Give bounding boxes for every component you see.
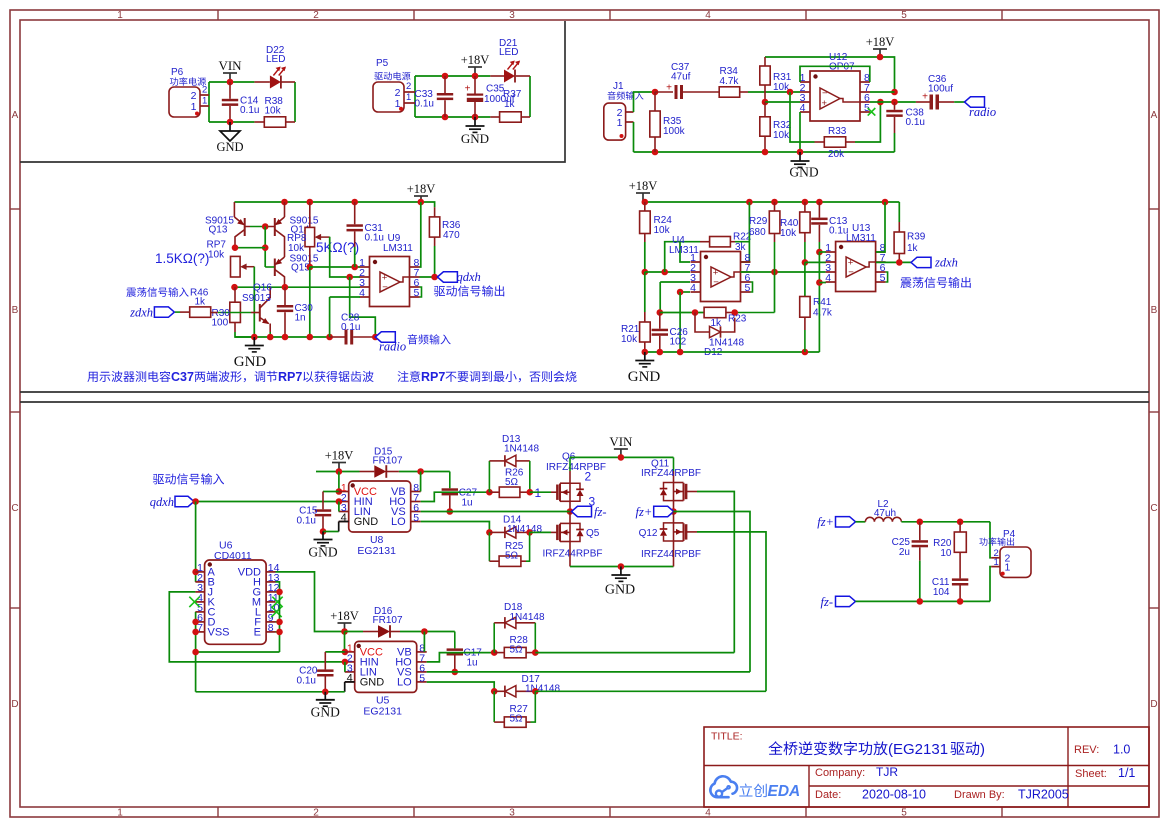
- diode D18 1N4148: [493, 623, 495, 653]
- svg-text:10: 10: [940, 548, 952, 559]
- svg-text:S9013: S9013: [242, 293, 271, 304]
- ground symbol (bridge): [620, 567, 622, 576]
- U5 HIN-LIN tie: [344, 662, 346, 672]
- U12 pin4 to ground: [799, 112, 801, 152]
- svg-text:2u: 2u: [899, 547, 910, 558]
- svg-text:LO: LO: [391, 516, 406, 528]
- ground symbol (B1): [253, 337, 255, 346]
- junction +18V to pin7: [891, 89, 898, 96]
- U4 pin7 output wire: [741, 271, 826, 273]
- svg-text:Company:: Company:: [815, 767, 865, 779]
- svg-text:0.1u: 0.1u: [297, 516, 316, 527]
- diode D13 1N4148: [488, 461, 490, 492]
- net flag radio (output): [965, 97, 985, 107]
- resistor R34: [719, 87, 740, 97]
- wire RP8 bottom to ground rail: [309, 267, 311, 337]
- wire VCC to C15: [323, 491, 339, 493]
- wire P5 top rail: [415, 75, 490, 77]
- U8 GND wire: [320, 528, 327, 535]
- svg-text:1: 1: [191, 101, 197, 113]
- trimmer RP8: [309, 202, 311, 227]
- net flag fz- (bridge): [572, 506, 592, 516]
- title block frame: [704, 727, 1149, 807]
- diode D12 1N4148: [695, 313, 709, 333]
- svg-text:IRFZ44RPBF: IRFZ44RPBF: [641, 468, 701, 479]
- U5 VB bootstrap wire: [421, 628, 428, 635]
- svg-text:B: B: [12, 305, 19, 316]
- svg-text:1n: 1n: [295, 313, 306, 324]
- node C26 / pin3: [657, 309, 664, 316]
- net flag qdxh (input): [153, 473, 224, 484]
- svg-text:C37: C37: [171, 370, 194, 384]
- svg-text:VIN: VIN: [218, 58, 242, 73]
- svg-text:3: 3: [509, 808, 515, 819]
- diode D16 FR107: [345, 631, 364, 633]
- svg-text:IRFZ44RPBF: IRFZ44RPBF: [543, 549, 603, 560]
- svg-text:fz+: fz+: [817, 515, 834, 529]
- net flag fz- (filter input): [836, 596, 856, 606]
- trimmer RP7: [231, 256, 241, 277]
- capacitor C25: [919, 522, 921, 540]
- connector J1: [604, 103, 626, 140]
- U9 pin4 wire to ground: [330, 296, 360, 298]
- svg-text:C: C: [1150, 503, 1157, 514]
- svg-text:EG2131: EG2131: [357, 545, 396, 557]
- transistor Q16 S9013: [251, 312, 259, 314]
- svg-text:4: 4: [825, 272, 831, 284]
- junction R32 bottom: [762, 149, 769, 156]
- ground symbol (U8/C15): [322, 532, 324, 540]
- svg-text:1.0: 1.0: [1113, 743, 1130, 757]
- svg-text:Q5: Q5: [586, 528, 600, 539]
- resistor R46: [175, 311, 180, 313]
- svg-text:20k: 20k: [828, 149, 845, 160]
- Q11 source to fz+ node: [673, 501, 675, 512]
- svg-text:1N4148: 1N4148: [525, 684, 560, 695]
- resistor R33: [815, 141, 825, 143]
- svg-text:D: D: [1150, 699, 1157, 710]
- svg-text:IRFZ44RPBF: IRFZ44RPBF: [641, 549, 701, 560]
- svg-text:VSS: VSS: [208, 627, 230, 639]
- resistor R39: [898, 202, 900, 222]
- Q6 source to fz- node: [569, 501, 571, 511]
- capacitor C30: [284, 287, 286, 305]
- U8 VB bootstrap wire: [417, 468, 424, 475]
- feedback wire R33 to pin6: [855, 102, 880, 142]
- inductor L2: [856, 521, 866, 523]
- MOSFET Q6 IRFZ44RPBF: [556, 485, 559, 500]
- svg-text:LM311: LM311: [669, 245, 699, 256]
- svg-text:GND: GND: [308, 545, 337, 560]
- svg-text:CD4011: CD4011: [214, 550, 252, 562]
- svg-text:radio: radio: [379, 340, 406, 354]
- transistor Q13 S9015: [233, 202, 235, 217]
- wire divider to pin3: [765, 101, 800, 103]
- capacitor C15: [322, 492, 324, 510]
- svg-text:1: 1: [1005, 562, 1011, 574]
- svg-text:GND: GND: [216, 140, 243, 154]
- junction divider mid / pin3: [762, 99, 769, 106]
- net flag zdxh (output): [911, 257, 931, 267]
- resistor R28: [494, 652, 504, 654]
- U6 pin4 no-connect X: [189, 597, 199, 607]
- svg-text:R41: R41: [813, 297, 832, 308]
- svg-text:5: 5: [419, 672, 425, 684]
- logic IC U6 CD4011: [205, 560, 267, 644]
- svg-text:3: 3: [589, 495, 596, 509]
- svg-text:+: +: [465, 84, 471, 95]
- pin2 audio coupling wire: [350, 277, 376, 337]
- diode D15 FR107: [360, 471, 375, 473]
- U4 pin4 wire to ground: [680, 291, 690, 293]
- resistor R21: [644, 312, 646, 322]
- svg-text:J1: J1: [613, 81, 624, 92]
- svg-text:5Ω: 5Ω: [505, 551, 519, 562]
- RP7 wiper wire to ground: [253, 267, 255, 337]
- svg-text:5: 5: [413, 512, 419, 524]
- wire LED D22 right vertical: [294, 82, 296, 122]
- Q13 collector wire: [235, 247, 265, 249]
- svg-text:680: 680: [749, 227, 766, 238]
- U8 HIN junction: [336, 498, 343, 505]
- svg-text:zdxh: zdxh: [129, 306, 153, 320]
- svg-text:LM311: LM311: [846, 233, 876, 244]
- transistor Q15 S9015: [275, 257, 284, 264]
- fz+ route wire to U5 VS: [674, 512, 751, 672]
- U13 pin7 output wire: [876, 261, 911, 263]
- svg-text:100: 100: [212, 318, 229, 329]
- svg-text:EDA: EDA: [768, 783, 801, 800]
- node pin2/divider (U4): [642, 269, 649, 276]
- svg-text:1N4148: 1N4148: [510, 612, 545, 623]
- R21 top wire: [644, 272, 646, 312]
- ground symbol (U12): [799, 152, 801, 161]
- svg-text:A: A: [12, 110, 19, 121]
- filter bottom rail: [856, 600, 991, 602]
- svg-text:1.5KΩ(?): 1.5KΩ(?): [155, 251, 209, 266]
- wire VCC to C20: [325, 651, 345, 653]
- Q15 base lead: [265, 266, 274, 268]
- wire P6 left vertical: [208, 82, 210, 122]
- svg-text:1: 1: [202, 96, 207, 107]
- svg-text:(EG2131: (EG2131: [888, 741, 948, 758]
- net flag fz+ (bridge): [654, 506, 674, 516]
- svg-text:1: 1: [117, 10, 123, 21]
- svg-text:470: 470: [443, 230, 460, 241]
- U4 pin1 tie loop + R22 left wire: [665, 242, 700, 272]
- wire +18V to U8 VCC: [338, 472, 340, 492]
- U5 GND wire: [344, 682, 346, 692]
- U4 pin3 wire: [660, 281, 690, 283]
- junction dots top rail B2: [642, 199, 649, 206]
- svg-text:LO: LO: [397, 676, 412, 688]
- svg-text:5: 5: [880, 272, 886, 284]
- wire pin6 output: [870, 101, 916, 103]
- svg-text:R33: R33: [828, 126, 847, 137]
- capacitor C38: [891, 99, 898, 106]
- svg-text:+18V: +18V: [330, 609, 359, 623]
- Q13/Q14 base wire: [245, 226, 250, 228]
- svg-text:GND: GND: [311, 705, 340, 720]
- svg-text:1: 1: [117, 808, 123, 819]
- svg-text:2: 2: [406, 81, 411, 92]
- resistor R35: [654, 92, 656, 111]
- junction nodes P5 rails: [442, 73, 449, 80]
- svg-text:4: 4: [690, 282, 696, 294]
- svg-text:4.7k: 4.7k: [813, 308, 833, 319]
- U8 HIN-LIN tie: [338, 502, 340, 512]
- capacitor C17: [454, 632, 456, 649]
- net flag zdxh (input): [154, 307, 174, 317]
- LED D21: [490, 75, 504, 77]
- svg-text:fz-: fz-: [594, 505, 607, 519]
- C13/pin1/pin4 ground wire: [816, 249, 823, 256]
- Q12 gate route wire: [686, 531, 697, 533]
- feedback wire pin2 down: [787, 89, 794, 96]
- transistor Q14 S9015: [284, 202, 286, 217]
- svg-text:1N4148: 1N4148: [504, 444, 539, 455]
- U8 LO wire: [421, 522, 490, 533]
- feedback node wire to R23: [774, 272, 776, 313]
- svg-text:TITLE:: TITLE:: [711, 731, 743, 743]
- svg-text:0.1u: 0.1u: [297, 676, 316, 687]
- resistor R37: [490, 116, 499, 118]
- svg-text:4: 4: [359, 287, 365, 299]
- svg-text:5: 5: [414, 287, 420, 299]
- comparator U4: [701, 252, 741, 302]
- ground symbol (P6) triangle style: [229, 122, 231, 131]
- resistor R30: [234, 287, 236, 302]
- svg-text:GND: GND: [360, 676, 385, 688]
- svg-text:RP7: RP7: [421, 370, 445, 384]
- U5 HO wire to gate network: [427, 653, 495, 662]
- svg-text:1/1: 1/1: [1118, 766, 1135, 780]
- svg-text:4: 4: [347, 672, 353, 684]
- gate driver IC U8 EG2131: [349, 481, 411, 532]
- wire P6 top rail: [209, 81, 254, 83]
- +18V rail top wire (A3): [765, 57, 895, 92]
- connector P5: [373, 82, 404, 112]
- svg-text:0.1u: 0.1u: [365, 233, 384, 244]
- U6 pin14 VDD wire: [276, 572, 345, 632]
- svg-text:LED: LED: [499, 47, 518, 58]
- U6 pin10 no-connect X: [271, 607, 281, 617]
- MOSFET Q5 IRFZ44RPBF: [556, 525, 559, 540]
- svg-text:Date:: Date:: [815, 789, 841, 801]
- capacitor C13: [818, 202, 820, 218]
- svg-text:): ): [980, 741, 985, 758]
- svg-text:1: 1: [406, 92, 411, 103]
- node R40/R41/U13 pin2: [802, 259, 809, 266]
- svg-text:10k: 10k: [780, 228, 797, 239]
- svg-text:10k: 10k: [654, 225, 671, 236]
- Q5 drain/source leads: [569, 512, 571, 524]
- svg-text:+18V: +18V: [325, 449, 354, 463]
- svg-text:104: 104: [933, 587, 950, 598]
- resistor R23: [704, 307, 726, 317]
- comparator U13: [836, 242, 876, 292]
- svg-text:Q16: Q16: [253, 283, 272, 294]
- svg-text:2020-08-10: 2020-08-10: [862, 788, 926, 802]
- svg-text:1N4148: 1N4148: [507, 524, 542, 535]
- B1 oscillator input label: [126, 287, 188, 297]
- resistor R22: [700, 241, 710, 243]
- U12 pin5 no-connect X: [868, 108, 876, 116]
- junction node C14 bottom / GND: [227, 119, 234, 126]
- wire J1 pin2 up: [634, 92, 656, 112]
- U8 HO wire to gate network: [421, 492, 490, 501]
- svg-text:B: B: [1151, 305, 1158, 316]
- wire LED D21 right vertical: [529, 76, 531, 117]
- svg-text:0.1u: 0.1u: [341, 322, 360, 333]
- resistor R20: [959, 522, 961, 532]
- svg-text:10k: 10k: [288, 243, 305, 254]
- long wire R27 to Q12 gate: [535, 690, 766, 692]
- resistor R36: [434, 207, 436, 217]
- wire P6 bottom rail: [209, 121, 254, 123]
- svg-text:radio: radio: [969, 105, 996, 119]
- svg-text:2: 2: [313, 10, 319, 21]
- op-amp U12 OP07: [810, 71, 860, 121]
- VIN rail (bridge): [570, 456, 674, 458]
- svg-text:EG2131: EG2131: [363, 705, 402, 717]
- wire qdxh to U8 HIN: [194, 501, 339, 503]
- U9 pin8 wire to +18V: [420, 202, 421, 267]
- junction node VIN/C14 top: [227, 79, 234, 86]
- svg-text:GND: GND: [234, 354, 267, 370]
- capacitor C11: [952, 578, 968, 581]
- svg-text:1: 1: [994, 557, 999, 568]
- svg-text:5KΩ(?): 5KΩ(?): [316, 240, 359, 255]
- svg-text:1u: 1u: [467, 658, 478, 669]
- U5 VS long wire: [427, 671, 750, 673]
- capacitor C14: [229, 82, 231, 99]
- U6 right-side ground rail: [276, 582, 280, 652]
- svg-text:+: +: [666, 83, 672, 94]
- svg-text:fz+: fz+: [636, 505, 653, 519]
- U6 unused-input ground rail left: [195, 612, 197, 652]
- wire gate Q5: [530, 531, 551, 533]
- resistor R24: [644, 202, 646, 211]
- svg-text:Q12: Q12: [639, 528, 658, 539]
- ground rail wire (B1): [235, 336, 330, 338]
- svg-text:fz-: fz-: [821, 595, 834, 609]
- wire P5 bottom rail: [415, 116, 490, 118]
- MOSFET Q12 IRFZ44RPBF: [685, 524, 688, 539]
- wire RP8 bottom to pin1: [310, 266, 360, 268]
- svg-text:+18V: +18V: [866, 35, 895, 49]
- capacitor C33: [444, 76, 446, 93]
- Q12 drain/source leads: [673, 512, 675, 523]
- diode D14 1N4148: [489, 531, 505, 533]
- svg-text:zdxh: zdxh: [934, 256, 958, 270]
- svg-text:−: −: [382, 282, 388, 293]
- capacitor C35 electrolytic: [474, 76, 476, 94]
- MOSFET Q11 IRFZ44RPBF: [685, 484, 688, 499]
- RP8 bottom junction: [307, 264, 314, 271]
- svg-text:47uf: 47uf: [671, 72, 691, 83]
- ground symbol (B2): [644, 352, 646, 361]
- svg-text:P5: P5: [376, 58, 389, 69]
- wire to U13 pin2: [805, 261, 826, 263]
- svg-text:2: 2: [585, 470, 592, 484]
- svg-text:10k: 10k: [208, 250, 225, 261]
- wire divider to U4 pin2: [645, 271, 690, 273]
- svg-text:TJR: TJR: [876, 765, 898, 779]
- svg-text:4: 4: [341, 512, 347, 524]
- svg-text:100k: 100k: [663, 126, 686, 137]
- wire pin7 output: [870, 91, 895, 93]
- svg-text:0.1u: 0.1u: [240, 105, 259, 116]
- svg-text:REV:: REV:: [1074, 744, 1099, 756]
- svg-text:1k: 1k: [195, 297, 207, 308]
- resistor R31: [764, 57, 766, 66]
- annotation note 1: [87, 371, 170, 382]
- svg-text:Sheet:: Sheet:: [1075, 768, 1107, 780]
- svg-text:5Ω: 5Ω: [505, 477, 519, 488]
- svg-text:R39: R39: [907, 232, 926, 243]
- svg-text:3: 3: [509, 10, 515, 21]
- wire J1 pin1 down to ground rail: [633, 122, 635, 152]
- U4 pin8 wire to +18V: [741, 202, 749, 262]
- +18V top rail (B1): [234, 202, 434, 207]
- resistor R27: [493, 691, 495, 722]
- ground symbol (U5/C20): [324, 692, 326, 700]
- svg-text:−: −: [713, 277, 719, 288]
- svg-text:0.1u: 0.1u: [415, 99, 434, 110]
- capacitor C26: [659, 313, 661, 329]
- svg-text:C35: C35: [486, 84, 505, 95]
- svg-text:LED: LED: [266, 54, 285, 65]
- capacitor C27: [449, 472, 451, 489]
- capacitor C36 electrolytic: [916, 101, 930, 103]
- svg-text:1k: 1k: [907, 243, 919, 254]
- svg-text:+18V: +18V: [461, 53, 490, 67]
- resistor R25: [488, 532, 490, 561]
- svg-text:1: 1: [617, 117, 623, 129]
- LED D22: [254, 81, 270, 83]
- svg-text:4: 4: [705, 10, 711, 21]
- junction R35 bottom: [652, 149, 659, 156]
- EasyEDA logo: [710, 776, 737, 797]
- U8 VS wire: [421, 511, 570, 513]
- svg-text:C: C: [11, 503, 18, 514]
- net flag radio (audio input B1): [375, 332, 395, 342]
- RP8 wiper wire to pin2: [330, 237, 360, 277]
- svg-text:0.1u: 0.1u: [906, 117, 925, 128]
- svg-text:R29: R29: [749, 216, 768, 227]
- svg-text:qdxh: qdxh: [150, 495, 174, 509]
- svg-text:5: 5: [901, 808, 907, 819]
- wire P5 left vertical: [414, 76, 416, 117]
- wire gate Q6: [530, 491, 551, 493]
- wires to P4: [990, 522, 991, 558]
- U13 pin8 wire to +18V: [876, 202, 885, 252]
- U12 pin1-pin8 loop wire: [800, 66, 870, 82]
- svg-text:VIN: VIN: [609, 434, 633, 449]
- svg-text:RP7: RP7: [278, 370, 302, 384]
- svg-text:10k: 10k: [621, 334, 638, 345]
- svg-text:GND: GND: [628, 369, 661, 385]
- svg-text:GND: GND: [789, 165, 818, 180]
- ground rail wire (B2): [645, 351, 820, 353]
- svg-text:47uh: 47uh: [874, 508, 896, 519]
- U5 LO wire: [427, 682, 495, 691]
- gate driver IC U5 EG2131: [355, 641, 417, 692]
- U6 pin3 output loop to U5 HIN: [169, 592, 345, 662]
- svg-text:GND: GND: [354, 516, 379, 528]
- svg-text:5Ω: 5Ω: [510, 644, 524, 655]
